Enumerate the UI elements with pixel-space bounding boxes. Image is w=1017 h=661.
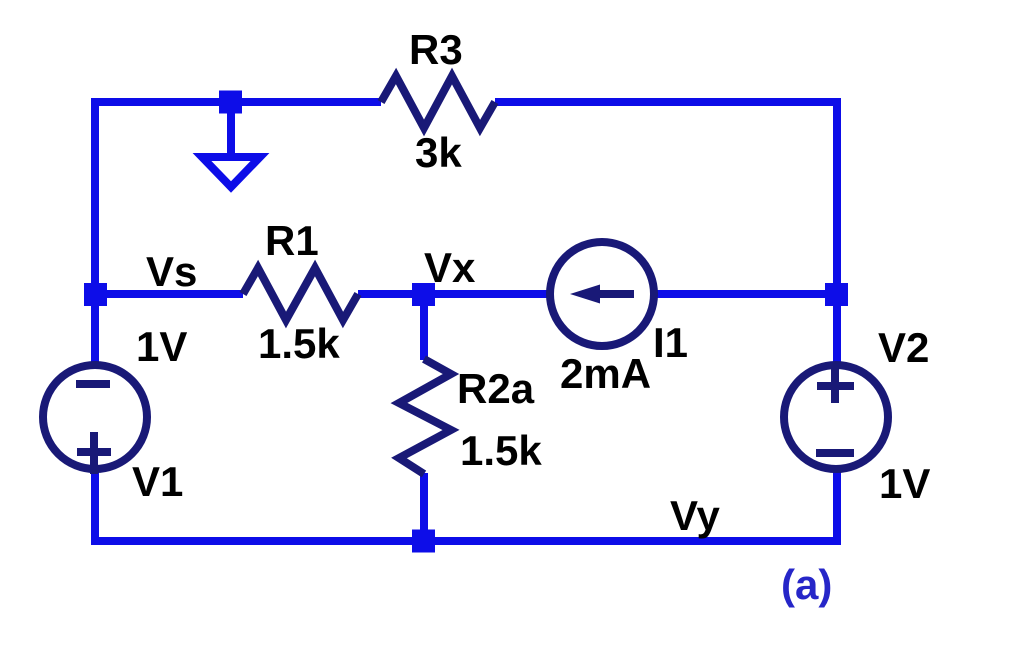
voltage source V2 circle xyxy=(784,365,888,469)
label 1V V1 xyxy=(136,323,187,370)
wire right vertical upper xyxy=(833,98,841,365)
svg-text:R2a: R2a xyxy=(457,365,535,412)
V2 plus sign xyxy=(817,367,854,403)
node square top (ground node) xyxy=(219,91,242,114)
wire right vertical lower xyxy=(833,470,841,545)
svg-text:R1: R1 xyxy=(265,217,319,264)
V1 plus sign xyxy=(77,432,111,474)
resistor R1 xyxy=(243,268,358,320)
label R1 xyxy=(265,217,319,264)
svg-text:Vx: Vx xyxy=(424,244,476,291)
ground symbol triangle xyxy=(202,157,260,187)
node Vs square xyxy=(84,283,107,306)
wire middle I1 to right xyxy=(656,290,837,298)
label Vs xyxy=(146,248,197,295)
node bottom square xyxy=(412,530,435,553)
svg-text:3k: 3k xyxy=(415,129,462,176)
label 2mA xyxy=(560,350,651,397)
label 3k xyxy=(415,129,462,176)
label 1.5k R2a xyxy=(460,427,542,474)
label I1 xyxy=(653,319,688,366)
svg-text:1V: 1V xyxy=(879,460,930,507)
wire top horizontal right of R3 xyxy=(495,98,837,106)
svg-text:R3: R3 xyxy=(409,26,463,73)
I1 arrow xyxy=(570,285,634,304)
label V2 xyxy=(878,324,929,371)
V2 minus sign xyxy=(816,449,854,457)
svg-text:1V: 1V xyxy=(136,323,187,370)
resistor R2a xyxy=(399,359,451,474)
wire Vx down to R2a xyxy=(420,294,428,360)
label 1V V2 xyxy=(879,460,930,507)
wire left vertical lower xyxy=(91,470,99,545)
svg-text:I1: I1 xyxy=(653,319,688,366)
svg-text:(a): (a) xyxy=(781,561,832,608)
label Vx xyxy=(424,244,476,291)
node Vx square xyxy=(412,283,435,306)
ground stub wire xyxy=(227,102,235,158)
resistor R3 xyxy=(381,76,495,128)
V1 minus sign xyxy=(76,380,110,388)
current source I1 circle xyxy=(550,242,654,346)
svg-text:Vs: Vs xyxy=(146,248,197,295)
svg-text:V1: V1 xyxy=(132,458,183,505)
svg-text:V2: V2 xyxy=(878,324,929,371)
label (a) xyxy=(781,561,832,608)
wire top horizontal left of R3 xyxy=(95,98,381,106)
wire left vertical upper xyxy=(91,98,99,365)
svg-text:1.5k: 1.5k xyxy=(460,427,542,474)
label R2a xyxy=(457,365,535,412)
label Vy xyxy=(670,492,720,539)
wire middle left of R1 xyxy=(95,290,243,298)
label 1.5k R1 xyxy=(258,320,340,367)
label V1 xyxy=(132,458,183,505)
wire middle R1 to I1 xyxy=(358,290,548,298)
node right square xyxy=(825,283,848,306)
svg-text:Vy: Vy xyxy=(670,492,720,539)
svg-text:1.5k: 1.5k xyxy=(258,320,340,367)
wire bottom horizontal xyxy=(95,537,837,545)
wire R2a to bottom xyxy=(420,473,428,540)
svg-text:2mA: 2mA xyxy=(560,350,651,397)
voltage source V1 circle xyxy=(43,365,147,469)
label R3 xyxy=(409,26,463,73)
